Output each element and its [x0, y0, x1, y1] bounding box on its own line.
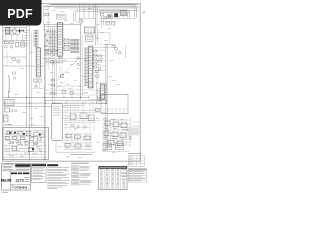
resistor network RN1: [33, 30, 38, 48]
border frame: [2, 3, 140, 161]
wire v x54b: [54, 26, 56, 56]
capacitor C2: [5, 46, 8, 49]
transistor Q1: [21, 42, 25, 47]
wire ew ticks: [102, 109, 127, 114]
tuner TU1: [84, 27, 95, 33]
wire mesh mid: [44, 50, 96, 97]
title block divider h: [2, 170, 31, 172]
wire hbus y97: [3, 96, 88, 98]
resistor R2: [10, 42, 14, 44]
bus junction dots: [8, 97, 106, 104]
transistor Q9: [77, 63, 80, 66]
inductor L1: [9, 75, 10, 97]
cluster under U2: [31, 79, 45, 89]
output stage rows: [64, 132, 93, 151]
notes block 1 lines: [32, 167, 45, 180]
transformer T1: [6, 28, 11, 35]
wire v x43: [43, 6, 45, 25]
wire mains 2: [3, 30, 22, 32]
notes block 1 box: [32, 164, 46, 183]
wire U1 pin harness: [44, 30, 57, 52]
op-amp U4 (audio amp): [100, 84, 106, 100]
wire below U3: [89, 89, 100, 100]
wire bus curve inner: [74, 10, 130, 22]
parts table box: [128, 168, 147, 182]
notes block 1 header: [32, 164, 46, 166]
wire v97b: [96, 70, 98, 84]
wire vbus x45: [45, 34, 47, 160]
resistor R63: [70, 92, 74, 95]
resistor R1: [4, 42, 8, 44]
capacitor C3: [10, 46, 13, 49]
wire vbus x80: [80, 25, 82, 100]
capacitor C22: [100, 13, 103, 16]
resistor R40: [112, 46, 115, 48]
connector P2: [4, 108, 9, 112]
legend heading: [71, 162, 89, 165]
bus stubs from top: [46, 6, 70, 8]
svg-text:21T9: 21T9: [16, 178, 25, 183]
audio box innards: [97, 98, 101, 102]
wire left h66: [3, 65, 45, 67]
chassis row dark text: [11, 173, 29, 175]
capacitor C9: [15, 109, 17, 111]
hv block box 2: [116, 144, 124, 150]
wire top bus 5: [99, 12, 130, 14]
wire top collector: [99, 17, 136, 19]
degauss coil L2: [3, 115, 8, 122]
wire drops top right: [102, 16, 129, 18]
rev table grid: [128, 156, 144, 166]
notes block 2 lines: [47, 167, 69, 189]
resistor R31: [98, 60, 102, 62]
bridge rectifier D1: [12, 28, 25, 34]
wire h58: [44, 58, 88, 60]
wire hbus y100: [44, 99, 107, 101]
wire vbus x82: [81, 35, 83, 97]
title block outer: [2, 164, 31, 190]
transistor Q8: [77, 57, 80, 60]
wire hbus y103: [3, 102, 107, 104]
wire v x54: [53, 57, 55, 100]
connector P1: [4, 100, 14, 106]
capacitor C8: [11, 109, 13, 111]
transistor Q7: [118, 51, 121, 54]
svg-text:DT2949-B: DT2949-B: [15, 186, 28, 190]
wire bus curve outer: [50, 5, 136, 18]
wire v x50: [50, 26, 52, 56]
wire bus curve outer2: [43, 6, 135, 17]
capacitor C41: [112, 22, 115, 25]
left column specks: [7, 50, 20, 79]
diode D2: [16, 43, 19, 48]
lower mid lattice: [63, 100, 107, 120]
mid specks 2: [46, 60, 99, 91]
deflection stage cluster: [63, 103, 100, 131]
wire u3 right: [93, 47, 106, 70]
power supply sub-board box: [3, 128, 49, 160]
IF filter Z1: [86, 35, 94, 42]
rev table heading: [128, 152, 142, 155]
resistor array RN2: [70, 40, 79, 53]
svg-text:A7: A7: [142, 11, 146, 15]
wire v x48: [47, 4, 49, 30]
title block spec text: [3, 165, 15, 170]
op-amp U1 (main micro): [56, 23, 63, 57]
wire vbus x31: [30, 33, 32, 127]
wire tuner drops: [78, 4, 95, 18]
hv block box 1: [103, 144, 112, 150]
wire hbus y106: [3, 105, 65, 107]
wire vbus x106: [105, 44, 107, 151]
resistor R50: [45, 14, 49, 16]
capacitor bank C30: [94, 50, 97, 68]
legend item 1: [72, 166, 91, 171]
wire bus y24: [43, 24, 82, 26]
psu label: [4, 124, 12, 127]
wire diagonal 2: [52, 80, 66, 92]
east-west block box: [101, 95, 128, 114]
crystal X2: [64, 46, 69, 51]
capacitor C51: [96, 75, 99, 77]
wire bus y26: [43, 25, 62, 27]
wire vbus x95: [95, 4, 97, 45]
page footer text: [2, 191, 9, 194]
power output cluster: [102, 118, 139, 148]
legend item 3: [72, 179, 94, 185]
transistor Q5: [98, 67, 101, 70]
transistor table columns: [104, 166, 120, 190]
crystal X1: [64, 39, 69, 44]
resistor R61: [61, 75, 64, 78]
speaker LS1: [79, 19, 83, 23]
video in dashed box: [98, 33, 111, 45]
line filter L6: [120, 11, 127, 16]
wire above psu box: [3, 125, 44, 127]
PDF badge: [0, 0, 42, 26]
wire v x52: [51, 57, 53, 104]
capacitor C1: [20, 29, 22, 34]
wire vbus x107: [106, 44, 108, 151]
wire top bus 1: [50, 3, 139, 5]
CRT board block: [52, 104, 62, 141]
svg-text:KELON: KELON: [1, 179, 12, 183]
wire v x52b: [52, 26, 54, 56]
capacitor C12: [51, 79, 54, 81]
wire v x56: [55, 60, 57, 97]
title block divider v: [9, 171, 11, 190]
wire top bus 2: [43, 5, 139, 7]
net label specks: [8, 8, 120, 158]
transistor table header: [99, 166, 127, 169]
wire v103b: [102, 18, 104, 26]
diode D3: [19, 30, 21, 32]
wire mains 1: [3, 27, 27, 29]
psu board innards: [4, 131, 47, 158]
capacitor C23: [104, 17, 107, 19]
wire h21: [99, 21, 116, 23]
wire h61: [44, 60, 80, 62]
wire bus curve inner2: [75, 12, 127, 23]
wire vbus x44: [44, 25, 46, 161]
model number glyphs: [16, 178, 30, 183]
ac input box: [56, 14, 66, 19]
net label specks left of ladder: [24, 30, 30, 46]
title block top-right text: [16, 168, 30, 170]
wire hv link: [102, 150, 130, 152]
op-amp U3 (jungle IC): [87, 46, 94, 88]
wire vbus x27: [26, 27, 28, 128]
wire mains 3: [6, 33, 20, 35]
wire vbus x29: [29, 25, 31, 161]
svg-text:PDF: PDF: [7, 7, 33, 21]
wire top bus 3: [55, 7, 139, 9]
legend item 2: [72, 173, 92, 178]
resistor R60: [51, 61, 54, 63]
audio block box: [96, 83, 107, 104]
wire vbus x97: [96, 6, 98, 41]
wire left h57: [3, 56, 27, 58]
mains filter block dark: [114, 13, 118, 17]
diode D4: [22, 30, 24, 32]
wire q6 links: [104, 44, 126, 58]
wire v101: [100, 18, 102, 29]
transistor Q6: [114, 47, 117, 54]
wire diagonal 1: [57, 58, 79, 81]
capacitor C13: [51, 84, 54, 86]
drawing number DT2949: [10, 185, 30, 190]
wire U3 left harness: [84, 48, 88, 87]
resistor R30: [98, 55, 102, 57]
degauss posistor PR1: [107, 14, 112, 18]
wire top bus 4: [99, 9, 139, 11]
op-amp U2 (reset IC): [35, 48, 41, 78]
wire bottom center tail: [56, 141, 95, 153]
junction cluster under U1: [44, 50, 63, 64]
capacitor C50: [96, 71, 99, 73]
capacitor C40: [106, 22, 109, 25]
notes block 2 header: [47, 164, 58, 166]
transistor table outer: [99, 166, 127, 190]
title block top-right black bar: [15, 164, 30, 166]
resistor R62: [62, 91, 66, 94]
label text row: [70, 153, 92, 156]
wire psu row: [3, 34, 25, 41]
transistor table right sub-rows: [121, 170, 127, 179]
resistor R12: [50, 93, 55, 95]
transistor case glyphs: [100, 169, 125, 188]
